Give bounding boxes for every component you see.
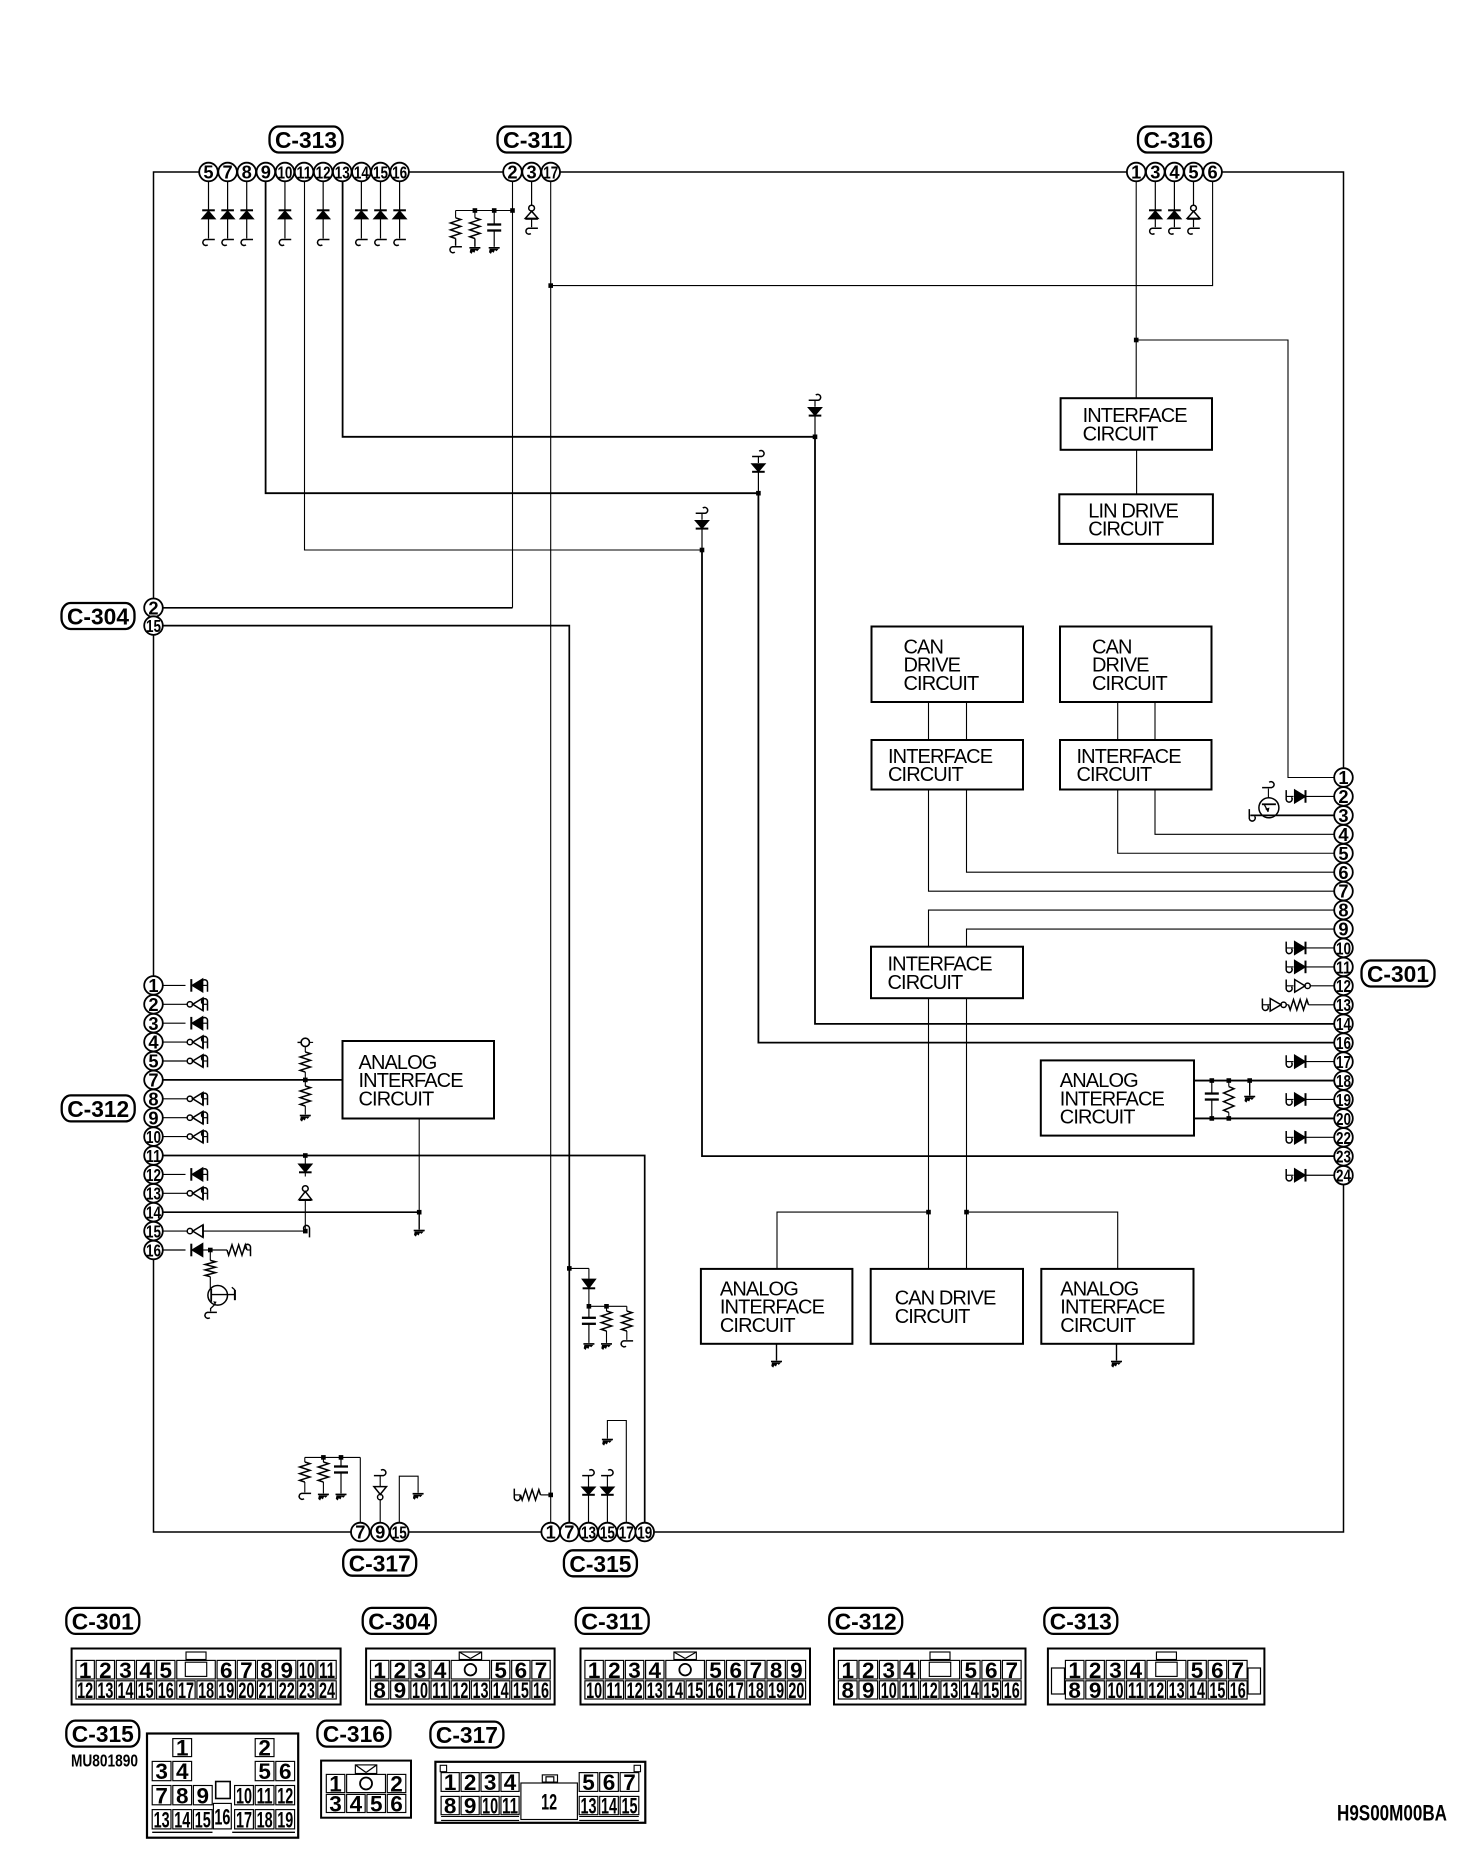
svg-text:16: 16 [146,1240,161,1260]
resistor R2 [474,211,476,218]
C-301 pin 23 [1334,1147,1353,1166]
svg-text:9: 9 [197,1783,210,1808]
svg-text:9: 9 [148,1107,158,1128]
svg-text:11: 11 [606,1678,622,1703]
connector table C-315 label [66,1721,139,1747]
C-301 pin 5 [1334,844,1353,863]
svg-text:10: 10 [146,1127,161,1147]
svg-text:C-311: C-311 [581,1609,643,1635]
svg-text:C-313: C-313 [275,127,337,153]
C-312 pin 7 [144,1071,163,1090]
wire C-311 pin 17 down to C-315 pin 1 [550,181,552,1522]
connector C-316 label [1138,127,1211,153]
svg-text:4: 4 [504,1770,517,1795]
wire U8 down to CAN drive circuit U10 [928,998,930,1269]
capacitor C2 between rails [1211,1081,1213,1094]
wire U7 to C-301 pin 5 [1118,790,1335,854]
connector C-315 label (bottom rail) [564,1550,637,1576]
C-304 pin 15 [144,616,163,635]
svg-text:3: 3 [155,1759,168,1784]
svg-text:5: 5 [1338,843,1348,864]
svg-text:8: 8 [176,1783,189,1808]
wire C-313 pin 9 to diode D20 to C-301 pin 16 [266,181,759,493]
svg-text:12: 12 [922,1678,938,1703]
svg-text:11: 11 [1128,1678,1144,1703]
svg-text:14: 14 [146,1203,161,1223]
C-315 pin 1 [541,1523,560,1542]
svg-text:6: 6 [1338,862,1348,883]
svg-text:7: 7 [223,162,233,183]
wire C-316 pin 1 branch to C-301 pin 1 [1136,340,1334,778]
svg-text:2: 2 [258,1736,271,1761]
curl below Q1 [205,1312,217,1318]
svg-text:6: 6 [1208,162,1218,183]
svg-text:13: 13 [154,1807,170,1832]
C-301 pin 18 [1334,1071,1353,1090]
svg-text:CIRCUIT: CIRCUIT [1060,1315,1135,1337]
C-315 pin 17 [617,1523,636,1542]
svg-text:3: 3 [527,162,537,183]
C-301 pin 11 [1334,958,1353,977]
diode at C-313 pin 10 [284,181,286,210]
wire C-304 pin 15 to C-315 pin 7 [163,626,569,1523]
svg-text:CIRCUIT: CIRCUIT [720,1315,795,1337]
svg-text:18: 18 [257,1807,273,1832]
diode at C-313 pin 15 [379,181,381,210]
wire C-312 pin 7 to analog interface circuit U5 [163,1079,343,1081]
svg-text:15: 15 [621,1794,637,1819]
diode + capacitor + resistor network on C-315 pin 7 line [567,1266,572,1271]
interface circuit U8 [871,947,1023,999]
svg-text:6: 6 [603,1770,616,1795]
wire U4 to C-301 pin 6 [967,790,1335,873]
svg-text:MU801890: MU801890 [71,1751,138,1771]
photo diode at C-312 pin 5 [163,1060,186,1062]
connector table C-311 [581,1649,811,1705]
C-313 side tabs [1052,1668,1065,1694]
svg-text:10: 10 [1107,1678,1123,1703]
svg-text:7: 7 [1338,881,1348,902]
photo diode at C-312 pin 4 [163,1041,186,1043]
svg-text:14: 14 [1189,1678,1205,1703]
svg-text:19: 19 [218,1678,234,1703]
svg-text:8: 8 [373,1678,386,1703]
C-315 key tab [216,1782,231,1799]
C-312 pin 1 [144,976,163,995]
C-317 pin 15 [390,1523,409,1542]
svg-text:16: 16 [214,1804,230,1829]
LIN drive circuit U2 [1059,494,1213,544]
wire C-311 pin 17 to C-316 pin 6 [551,181,1213,285]
svg-text:22: 22 [279,1678,295,1703]
svg-text:H9S00M00BA: H9S00M00BA [1337,1801,1447,1826]
C-312 pin 15 [144,1222,163,1241]
svg-text:1: 1 [546,1522,556,1543]
diode at C-312 pin 16 [163,1249,186,1251]
svg-text:10: 10 [277,162,292,182]
connector C-312 label [62,1095,135,1121]
svg-text:14: 14 [354,162,369,182]
connector table C-301 [72,1649,341,1705]
C-301 pin 17 [1334,1052,1353,1071]
svg-text:16: 16 [158,1678,174,1703]
svg-text:12: 12 [541,1789,557,1814]
connector C-317 label (bottom rail) [343,1550,416,1576]
svg-text:CIRCUIT: CIRCUIT [1088,519,1163,541]
svg-text:9: 9 [862,1678,875,1703]
svg-text:13: 13 [942,1678,958,1703]
C-313 pin 10 [276,163,295,182]
photo diode at C-312 pin 8 [163,1098,186,1100]
svg-text:15: 15 [138,1678,154,1703]
svg-text:12: 12 [77,1678,93,1703]
diode at C-313 pin 14 [360,181,362,210]
C-316 pin 1 [1127,163,1146,182]
diode D21 with supply curl (above junction at 815) [809,394,821,400]
photo diode at C-312 pin 9 [163,1117,186,1119]
svg-text:17: 17 [1336,1052,1351,1072]
chain to C-301 pin 13 [1262,998,1268,1010]
svg-text:15: 15 [687,1678,703,1703]
svg-text:14: 14 [493,1678,509,1703]
capacitor C3 [340,1457,342,1466]
svg-text:C-315: C-315 [72,1721,134,1747]
C-311 pin 3 [522,163,541,182]
wire C-313 pin 13 to diode D21 to C-301 pin 14 [343,181,815,436]
C-312 pin 3 [144,1014,163,1033]
ground below U9 [776,1344,778,1361]
C-316 pin 4 [1165,163,1184,182]
svg-text:20: 20 [788,1678,804,1703]
svg-text:C-301: C-301 [72,1609,134,1635]
svg-text:13: 13 [335,162,350,182]
svg-text:4: 4 [176,1759,189,1784]
C-301 pin 13 [1334,995,1353,1014]
svg-text:13: 13 [97,1678,113,1703]
svg-text:13: 13 [473,1678,489,1703]
connector table C-317 [435,1762,645,1823]
svg-text:24: 24 [1336,1166,1351,1186]
zener diode Z1 below C-311 pin 3 [531,181,533,205]
svg-text:CIRCUIT: CIRCUIT [888,972,963,994]
ground loop above C-317 pin 15 [399,1476,418,1523]
svg-text:3: 3 [1338,805,1348,826]
svg-text:17: 17 [543,162,558,182]
C-301 pin 8 [1334,901,1353,920]
diode at C-313 pin 7 [227,181,229,210]
wire to C-301 pin 22 [1286,1131,1292,1143]
svg-text:6: 6 [279,1759,292,1784]
C-301 pin 22 [1334,1128,1353,1147]
svg-text:19: 19 [1336,1090,1351,1110]
svg-text:CIRCUIT: CIRCUIT [1092,673,1167,695]
wire analog interface U9 to U10 left leg [777,1212,929,1269]
connector table C-315 [147,1734,298,1838]
connector table C-313 label [1044,1608,1117,1634]
interface circuit U4 [872,740,1024,790]
wire U4 to C-301 pin 7 [929,790,1335,892]
C-312 pin 13 [144,1184,163,1203]
C-301 pin 6 [1334,863,1353,882]
svg-text:5: 5 [203,162,213,183]
svg-text:17: 17 [619,1522,634,1542]
diode D20 with supply curl (above junction at 758) [752,451,764,457]
svg-text:12: 12 [1336,976,1351,996]
connector table C-301 label [66,1608,139,1634]
svg-text:13: 13 [581,1522,596,1542]
resistor R11 [589,1305,607,1307]
C-313 pin 8 [237,163,256,182]
ground loop above C-315 pin 17 [607,1421,626,1523]
curl terminal above Q2 [1267,789,1269,798]
resistor R5 (bottom of divider) to ground [304,1080,306,1086]
C-315 pin 15 [598,1523,617,1542]
svg-text:19: 19 [768,1678,784,1703]
svg-text:8: 8 [1068,1678,1081,1703]
svg-text:1: 1 [1131,162,1141,183]
connector table C-312 [834,1649,1026,1705]
connector table C-313 [1048,1649,1265,1705]
connector table C-317 label [430,1722,503,1748]
svg-text:3: 3 [1150,162,1160,183]
svg-text:7: 7 [623,1770,636,1795]
wire C-311 pin 2 to C-304 pin 2 [512,181,514,608]
diode D31 above C-315 pin 15 [601,1470,613,1476]
svg-text:10: 10 [482,1794,498,1819]
C-315 pin 13 [579,1523,598,1542]
svg-text:CIRCUIT: CIRCUIT [1060,1107,1135,1129]
svg-text:14: 14 [117,1678,133,1703]
wire to C-301 pin 2 [1286,790,1292,802]
C-316 pin 3 [1146,163,1165,182]
interface circuit U1 [1061,398,1212,450]
svg-text:CIRCUIT: CIRCUIT [1077,764,1152,786]
diode chain on C-312 pin 11 wire [303,1153,308,1158]
svg-text:9: 9 [261,162,271,183]
svg-text:CIRCUIT: CIRCUIT [888,764,963,786]
C-312 pin 10 [144,1127,163,1146]
C-301 pin 16 [1334,1033,1353,1052]
C-301 pin 9 [1334,920,1353,939]
C-312 pin 4 [144,1033,163,1052]
svg-text:16: 16 [392,162,407,182]
C-312 pin 12 [144,1165,163,1184]
svg-text:17: 17 [728,1678,744,1703]
svg-text:23: 23 [299,1678,315,1703]
C-315 pin 19 [635,1523,654,1542]
transistor Q2 at C-301 pin 3 [1250,814,1334,816]
C-301 pin 10 [1334,939,1353,958]
svg-text:16: 16 [1004,1678,1020,1703]
C-312 pin 11 [144,1146,163,1165]
svg-text:C-316: C-316 [323,1721,385,1747]
C-301 pin 14 [1334,1014,1353,1033]
svg-text:13: 13 [1169,1678,1185,1703]
C-312 pin 2 [144,995,163,1014]
C-301 pin 24 [1334,1166,1353,1185]
svg-text:4: 4 [1338,824,1349,845]
svg-text:9: 9 [464,1794,477,1819]
svg-text:14: 14 [963,1678,979,1703]
svg-text:14: 14 [601,1794,617,1819]
svg-text:17: 17 [236,1807,252,1832]
svg-text:8: 8 [444,1794,457,1819]
svg-text:16: 16 [707,1678,723,1703]
svg-text:12: 12 [316,162,331,182]
connector table C-304 label [363,1608,436,1634]
wire U8 to C-301 pin 8 [929,910,1335,947]
wire C-312 pin 11 to C-315 pin 19 [163,1156,645,1523]
resistor network R1 R2 C1 at C-311 pin 2 [456,210,513,212]
svg-text:CIRCUIT: CIRCUIT [895,1306,970,1328]
svg-text:2: 2 [507,162,517,183]
C-304 pin 2 [144,599,163,618]
wire C-313 pin 11 to diode D22 to C-301 pin 23 [305,181,703,550]
svg-text:15: 15 [600,1522,615,1542]
diode at C-313 pin 8 [246,181,248,210]
resistor R4 (top of C-312 pin 7 divider) [304,1047,306,1052]
diode at C-312 pin 3 [163,1022,186,1024]
wire U12 to C-301 pin 20 rail [1194,1117,1334,1119]
wire U12 to C-301 pin 18 rail [1194,1080,1334,1082]
C-301 pin 3 [1334,806,1353,825]
C-301 pin 2 [1334,787,1353,806]
resistor R8 [304,1457,306,1462]
svg-text:8: 8 [148,1088,158,1109]
resistor R10 left of C-315 pin 1 [514,1489,520,1501]
diode at C-313 pin 12 [322,181,324,210]
connector C-311 label [498,127,571,153]
C-317 corner notches [440,1765,446,1771]
wires U3 to U4 [928,702,930,740]
svg-text:C-304: C-304 [67,604,129,630]
svg-text:14: 14 [174,1807,190,1832]
svg-text:14: 14 [1336,1014,1351,1034]
svg-text:13: 13 [581,1794,597,1819]
svg-text:8: 8 [841,1678,854,1703]
svg-text:11: 11 [146,1146,161,1166]
svg-text:9: 9 [375,1522,385,1543]
analog interface circuit U9 [701,1269,853,1344]
connector table C-311 label [576,1608,649,1634]
svg-text:2: 2 [1338,786,1348,807]
C-315 bottom strips [152,1831,212,1833]
svg-text:15: 15 [373,162,388,182]
svg-text:11: 11 [1336,957,1351,977]
diode at C-313 pin 16 [399,181,401,210]
wire C-316 pin 1 to interface circuit U1 [1135,181,1137,398]
C-317 pin 9 [371,1523,390,1542]
svg-text:8: 8 [1338,900,1348,921]
transistor Q1 [208,1286,228,1306]
C-313 pin 12 [314,163,333,182]
svg-text:2: 2 [464,1770,477,1795]
connector table C-312 label [829,1608,902,1634]
C-316 envelope mark [355,1765,376,1774]
diode at C-312 pin 1 [163,984,186,986]
svg-text:C-317: C-317 [349,1550,411,1576]
CAN drive circuit U3 [872,627,1024,703]
svg-text:12: 12 [146,1165,161,1185]
connector table C-316 label [317,1721,390,1747]
analog interface circuit U12 (mid right) [1041,1060,1194,1135]
svg-text:11: 11 [502,1794,518,1819]
C-313 pin 16 [390,163,409,182]
C-317 pin 7 [351,1523,370,1542]
resistor R6 right of C-312 pin 16 junction [210,1249,227,1251]
svg-text:11: 11 [297,162,312,182]
svg-text:11: 11 [432,1678,448,1703]
svg-text:4: 4 [148,1032,159,1053]
diode D22 with supply curl (above junction at 702) [696,507,708,513]
zener diode at C-316 pin 5 [1193,181,1195,205]
C-301 pin 7 [1334,882,1353,901]
svg-text:5: 5 [1188,162,1198,183]
C-311 pin 17 [541,163,560,182]
svg-text:15: 15 [513,1678,529,1703]
analog interface circuit U11 [1041,1269,1193,1344]
svg-text:19: 19 [637,1522,652,1542]
svg-text:8: 8 [242,162,252,183]
diode at C-316 pin 3 [1154,181,1156,210]
svg-text:7: 7 [155,1783,168,1808]
wire to C-301 pin 10 [1286,942,1292,954]
svg-text:5: 5 [148,1051,158,1072]
diode at C-313 pin 5 [208,181,210,210]
svg-text:20: 20 [238,1678,254,1703]
svg-text:16: 16 [1336,1033,1351,1053]
C-313 pin 13 [333,163,352,182]
svg-text:10: 10 [586,1678,602,1703]
wire U1 to U2 [1136,450,1138,495]
diode D30 above C-315 pin 13 [582,1470,594,1476]
C-313 pin 9 [257,163,276,182]
C-301 pin 4 [1334,825,1353,844]
svg-text:12: 12 [277,1783,293,1808]
svg-text:C-301: C-301 [1367,961,1429,987]
svg-text:C-312: C-312 [67,1096,129,1122]
analog interface circuit U5 (left) [343,1041,495,1119]
resistor R9 [322,1457,324,1462]
resistor R12 [607,1305,627,1307]
svg-text:1: 1 [176,1736,189,1761]
interface circuit U7 [1060,740,1212,790]
ring terminal above R4 [301,1038,309,1046]
capacitor C4 [588,1306,590,1318]
C-301 pin 19 [1334,1090,1353,1109]
ground stub on pin 18 rail [1247,1078,1252,1083]
svg-text:4: 4 [1169,162,1180,183]
svg-text:13: 13 [647,1678,663,1703]
C-317 cell 12 (wide) [521,1783,578,1820]
svg-text:16: 16 [1230,1678,1246,1703]
svg-text:7: 7 [564,1522,574,1543]
photo diode at C-312 pin 15 with wire to junction [163,1230,187,1232]
svg-text:9: 9 [394,1678,407,1703]
zener diode Z2 in chain [302,1186,308,1192]
wire U7 to C-301 pin 4 [1155,790,1334,835]
C-313 pin 15 [371,163,390,182]
resistor R3 between rails [1228,1081,1230,1087]
connector C-304 label [62,603,135,629]
wire U5 bottom to C-312 pin 14 junction and ground [418,1119,420,1213]
ground below U11 [1116,1344,1118,1361]
C-315 cell 16 (tall) [213,1803,231,1829]
svg-text:3: 3 [484,1770,497,1795]
svg-text:C-313: C-313 [1050,1609,1112,1635]
connector C-313 label [270,127,343,153]
svg-text:18: 18 [198,1678,214,1703]
